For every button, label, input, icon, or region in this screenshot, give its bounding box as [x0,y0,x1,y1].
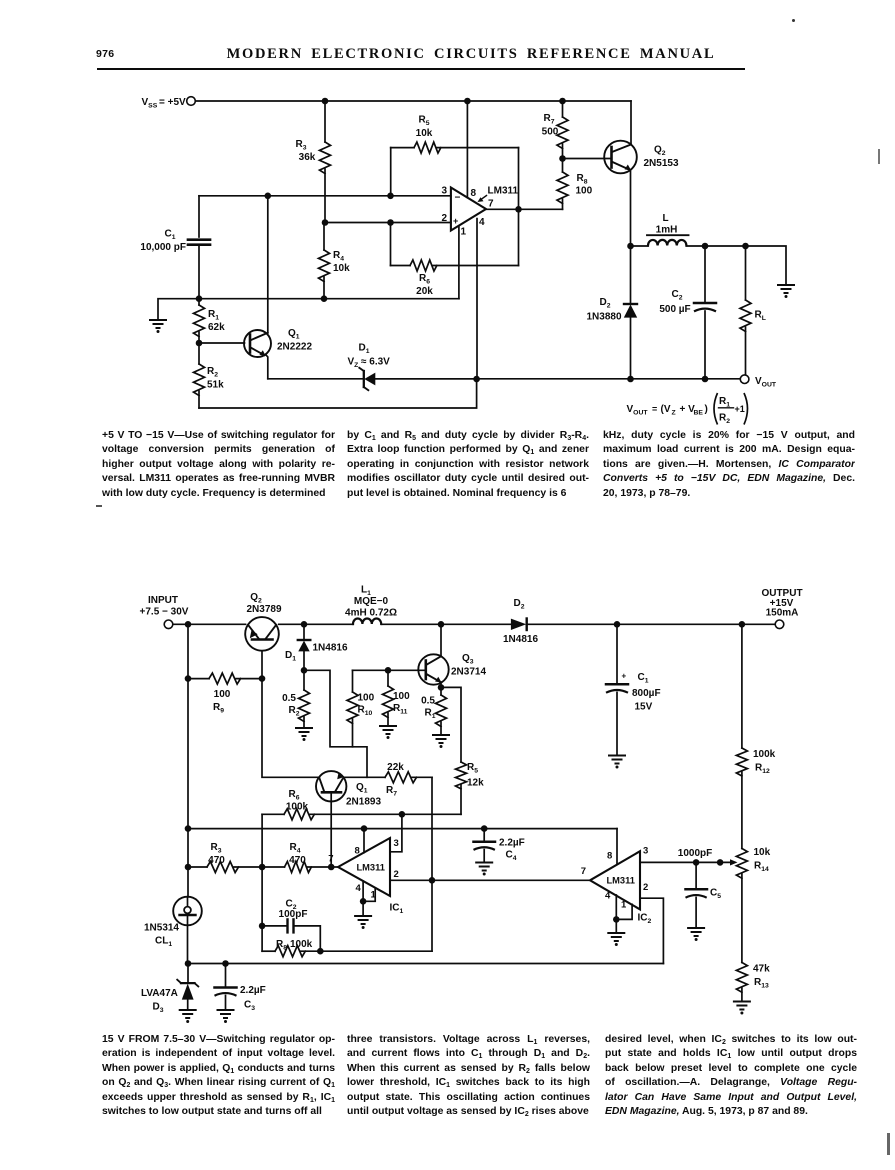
wire top rail to output [279,621,775,628]
op-amp IC2 LM311 [581,846,652,926]
svg-text:IC2: IC2 [638,913,652,926]
svg-text:4: 4 [479,217,485,228]
svg-text:470: 470 [208,855,225,866]
svg-text:LVA47A: LVA47A [141,988,178,999]
wire R7/pin2/R8 vertical [429,777,436,951]
svg-text:R8: R8 [577,173,588,186]
wire bottom feedback line [185,960,664,967]
wire IC1 pin3 [390,814,402,852]
svg-text:VOUT: VOUT [627,404,649,417]
svg-text:20k: 20k [416,286,433,297]
wire pin8 to +5V [466,101,468,198]
wire IC1 pin4 pin1 ground [360,881,375,916]
svg-text:R3: R3 [295,139,306,152]
ground (C5) [687,928,705,941]
svg-text:D2: D2 [599,297,610,310]
resistor R3 36k [295,101,330,223]
svg-text:800µF: 800µF [632,688,661,699]
wire Q1 base [196,340,245,347]
svg-text:R8: R8 [276,939,287,952]
svg-text:VSS: VSS [142,97,158,110]
resistor R8 100k [262,939,432,957]
resistor R4 470 [259,842,338,873]
svg-text:2.2µF: 2.2µF [240,985,266,996]
svg-text:R7: R7 [386,785,397,798]
svg-text:C1: C1 [164,229,175,242]
svg-text:62k: 62k [208,322,225,333]
svg-text:1: 1 [461,227,467,238]
svg-text:VZ: VZ [348,357,359,370]
capacitor C5 [686,862,722,928]
svg-text:−: − [455,193,461,204]
svg-text:): ) [705,404,708,415]
svg-text:R13: R13 [754,977,769,990]
svg-text:Q1: Q1 [288,328,300,341]
svg-text:R4: R4 [333,250,344,263]
ground (left of C1) [149,299,199,333]
svg-text:Q3: Q3 [462,653,474,666]
resistor R10 100 [347,670,375,747]
svg-text:R7: R7 [543,113,554,126]
svg-text:C4: C4 [506,850,517,863]
svg-text:2: 2 [394,869,399,880]
svg-text:Z: Z [672,410,676,417]
potentiometer R14 10k [736,847,770,963]
svg-text:CL1: CL1 [155,936,172,949]
resistor R2 0.5 [282,670,309,728]
svg-text:22k: 22k [387,762,404,773]
wire IC2 pin4 pin1 ground [613,895,632,933]
resistor R5 12k [441,687,484,814]
ground (IC1) [354,916,372,929]
svg-text:8: 8 [607,851,612,862]
svg-text:2N5153: 2N5153 [644,158,679,169]
svg-text:LM311: LM311 [357,863,385,873]
svg-text:150mA: 150mA [766,608,799,619]
svg-text:1mH: 1mH [656,225,678,236]
svg-text:R11: R11 [393,703,408,716]
resistor R9 100 [185,673,266,715]
equation VOUT [627,393,748,425]
svg-text:D1: D1 [285,650,296,663]
svg-text:1N3880: 1N3880 [586,312,621,323]
wire op-amp pin2 line [322,219,451,226]
svg-text:1000pF: 1000pF [678,848,712,859]
capacitor C3 2.2uF [215,964,266,1013]
svg-text:100: 100 [576,186,593,197]
svg-text:+7.5 − 30V: +7.5 − 30V [140,607,189,618]
wire input rail [173,621,246,628]
resistor R12 100k [736,624,775,848]
capacitor C2 100pF [259,867,320,951]
svg-text:100k: 100k [286,802,309,813]
ground (R2) [295,728,313,741]
svg-text:L: L [662,213,668,224]
svg-text:C1: C1 [638,672,649,685]
node INPUT terminal [140,595,189,629]
svg-text:D1: D1 [358,343,369,356]
svg-text:+: + [622,672,627,681]
diode D2 1N3880 [586,246,637,379]
wire pin1 down [458,227,460,299]
ground (D3) [179,1010,197,1023]
svg-text:3: 3 [643,846,648,857]
resistor R7 500 [542,101,568,159]
node VOUT terminal [740,375,777,389]
svg-text:1N5314: 1N5314 [144,923,179,934]
svg-text:10k: 10k [333,263,350,274]
svg-text:+: + [453,216,458,226]
wire pin7 output [486,199,563,213]
page number 976 [96,48,114,60]
svg-text:R6: R6 [419,273,430,286]
inductor L1 MQE-0 [345,585,397,625]
svg-text:R1: R1 [425,708,436,721]
svg-text:8: 8 [471,188,477,199]
node OUTPUT terminal [761,588,802,629]
wire IC2 pin2 loop [640,898,663,963]
transistor Q1 2N1893 [316,771,381,867]
wire output node vertical [518,148,520,266]
svg-text:2N2222: 2N2222 [277,342,312,353]
svg-text:4: 4 [605,891,611,902]
svg-text:Q2: Q2 [250,592,262,605]
diode CL1 1N5314 [144,897,202,964]
svg-text:LM311: LM311 [607,876,635,886]
svg-text:R2: R2 [207,366,218,379]
wire D1 node jog to Q1 emitter [301,667,367,777]
svg-text:51k: 51k [207,380,224,391]
wire R10 top to Q3 base [353,667,426,674]
svg-text:R3: R3 [210,842,221,855]
svg-text:2N3789: 2N3789 [246,604,281,615]
resistor R3 470 [185,842,262,873]
resistor R13 47k [736,963,770,1002]
svg-text:100: 100 [393,691,410,702]
op-amp U1 LM311 [441,186,518,238]
svg-text:=: = [652,404,657,414]
wire IC2 pin8 V+ [616,829,618,864]
svg-text:MQE−0: MQE−0 [354,596,389,607]
header rule [97,68,745,70]
resistor RL [740,246,766,375]
wire V+ line y828 [185,825,617,832]
ground (output) [777,285,795,298]
svg-text:8: 8 [355,846,360,857]
resistor R7 22k [344,762,433,798]
wire R6 left leg down [261,814,263,867]
wire op-amp pin3 line [199,193,451,200]
svg-text:10,000 pF: 10,000 pF [140,242,186,253]
svg-text:0.5: 0.5 [282,693,296,704]
svg-text:D3: D3 [153,1002,164,1015]
svg-text:C3: C3 [244,1000,255,1013]
svg-text:3: 3 [441,186,447,197]
svg-text:R4: R4 [289,842,300,855]
diode D1 zener 6.3V [268,343,477,391]
svg-text:R5: R5 [467,762,478,775]
svg-text:BE: BE [694,410,704,417]
transistor Q1 2N2222 [244,196,312,379]
wire C1/R4/pin1 node [196,295,459,302]
capacitor C1 10,000pF [140,196,210,299]
svg-text:2.2µF: 2.2µF [499,838,525,849]
svg-text:100: 100 [214,689,231,700]
svg-text:VOUT: VOUT [755,376,777,389]
svg-text:4: 4 [356,883,362,894]
svg-text:7: 7 [488,199,494,210]
ground (IC2) [607,933,625,946]
wire bottom output line [375,376,740,383]
wire Q2 base to Q1 collector [262,651,319,778]
op-amp IC1 LM311 [328,838,403,915]
node Vss terminal [142,97,196,110]
svg-text:C2: C2 [671,289,682,302]
svg-text:12k: 12k [467,778,484,789]
svg-text:500: 500 [542,127,559,138]
resistor R4 10k [319,223,351,299]
svg-text:2: 2 [643,882,648,893]
svg-text:LM311: LM311 [488,186,519,197]
resistor R1 0.5 [421,684,446,735]
svg-text:R6: R6 [288,789,299,802]
svg-text:R1: R1 [719,396,730,409]
ground (C3) [217,1010,235,1023]
svg-text:470: 470 [289,855,306,866]
svg-text:10k: 10k [754,847,771,858]
svg-text:RL: RL [755,310,766,323]
svg-text:C5: C5 [710,888,721,901]
svg-text:R10: R10 [358,705,373,718]
svg-text:15V: 15V [635,702,653,713]
svg-text:1N4816: 1N4816 [503,634,538,645]
ground (R13) [733,1002,751,1015]
capacitor C4 2.2uF [474,829,525,863]
resistor R6 100k [262,789,461,820]
svg-text:+1: +1 [735,404,745,414]
svg-text:INPUT: INPUT [148,595,178,606]
svg-text:R12: R12 [755,763,770,776]
wire IC1 pin2 to IC2 pin7 [390,879,590,881]
capacitor C2 500uF [659,246,716,379]
ground (R1) [432,735,450,748]
svg-text:2N1893: 2N1893 [346,797,381,808]
svg-text:36k: 36k [299,152,316,163]
capacitor C1 800uF [606,624,661,755]
svg-text:3: 3 [394,838,399,849]
svg-text:(V: (V [661,404,671,415]
svg-text:Q2: Q2 [654,145,666,158]
wire IC2 pin3 to R14 [640,848,738,866]
resistor R2 51k [194,343,225,408]
ground (C1) [608,756,626,769]
svg-text:4mH 0.72Ω: 4mH 0.72Ω [345,608,397,619]
svg-text:500 µF: 500 µF [659,304,690,315]
svg-text:R2: R2 [289,705,300,718]
wire Q2 base [559,155,611,162]
svg-text:1: 1 [621,900,627,911]
svg-text:100k: 100k [290,939,313,950]
transistor Q2 2N3789 [245,592,282,651]
scan specks [792,19,795,22]
svg-text:100k: 100k [753,749,776,760]
svg-text:7: 7 [581,866,586,877]
svg-text:1N4816: 1N4816 [313,643,348,654]
svg-text:10k: 10k [416,128,433,139]
svg-text:2N3714: 2N3714 [451,667,486,678]
diode D2 1N4816 [503,598,538,645]
svg-text:R2: R2 [719,413,730,426]
svg-text:0.5: 0.5 [421,696,435,707]
svg-text:Q1: Q1 [356,782,368,795]
resistor R8 100 [557,159,593,204]
svg-text:= +5V: = +5V [159,97,186,108]
svg-text:2: 2 [441,213,447,224]
wire IC1 pin8 [363,829,365,853]
ground (R11) [379,726,397,739]
svg-text:D2: D2 [513,598,524,611]
svg-text:47k: 47k [753,964,770,975]
wire pin4 down to zener node [476,219,478,380]
resistor R6 20k [391,223,519,298]
svg-text:R1: R1 [208,309,219,322]
transistor Q3 2N3714 [418,624,486,687]
svg-text:R9: R9 [213,702,224,715]
diode D1 1N4816 [285,624,348,670]
inductor L 1mH [627,213,708,249]
svg-text:≈ 6.3V: ≈ 6.3V [361,357,390,368]
svg-text:7: 7 [328,854,333,865]
svg-text:R14: R14 [754,861,769,874]
resistor R11 100 [383,670,411,726]
wire output top rail [705,243,786,285]
title [224,46,718,63]
wire left rail [187,624,189,897]
wire bottom loop R2 to pin4 node [199,379,477,408]
resistor R1 62k [194,299,226,343]
ground (C4) [475,863,493,876]
svg-text:100: 100 [358,693,375,704]
transistor Q2 2N5153 [604,101,679,246]
svg-text:IC1: IC1 [390,903,404,916]
svg-text:100pF: 100pF [279,909,308,920]
wire +5V top rail [196,98,632,105]
resistor R5 10k [391,115,519,196]
diode D3 LVA47A zener [141,964,198,1015]
svg-text:R5: R5 [418,115,429,128]
